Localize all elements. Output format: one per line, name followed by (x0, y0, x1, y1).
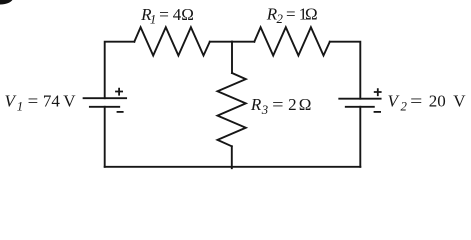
wire: bottom-right corner up to V2 negative plate (359, 107, 361, 167)
plus sign of V2 (374, 88, 382, 96)
battery V2 positive plate (339, 98, 380, 100)
node A: junction of R1, R2, R3 (232, 41, 254, 43)
corner artifact (0, 0, 13, 5)
battery V1 negative plate (90, 106, 119, 108)
svg-text:V2=20V: V2=20V (388, 92, 467, 114)
svg-text:R3=2Ω: R3=2Ω (250, 95, 311, 117)
svg-text:V1=74V: V1=74V (5, 92, 77, 114)
resistor R2 (254, 27, 329, 55)
plus sign of V1 (115, 88, 123, 96)
battery V2 negative plate (346, 106, 374, 108)
wire: node A down to R3 top terminal (231, 42, 233, 73)
wire: V1 negative plate down to bottom-left corner (104, 107, 106, 167)
svg-text:R1=4Ω: R1=4Ω (140, 5, 194, 27)
minus sign of V1 (117, 111, 124, 113)
svg-text:R2=1Ω: R2=1Ω (266, 4, 318, 26)
resistor R1 (134, 27, 210, 55)
wire: R2 right terminal to top-right corner down to V2 positive plate (330, 42, 361, 99)
wire: R1 right terminal to node A (210, 41, 232, 43)
resistor R3 (218, 73, 246, 146)
wire: R3 bottom terminal down to node B on bottom wire (231, 146, 233, 168)
wire: bottom return (105, 166, 361, 168)
battery V1 positive plate (84, 97, 127, 99)
minus sign of V2 (374, 111, 381, 113)
wire top-left: R1 left terminal to top-left corner down to V1 positive plate (105, 42, 135, 98)
